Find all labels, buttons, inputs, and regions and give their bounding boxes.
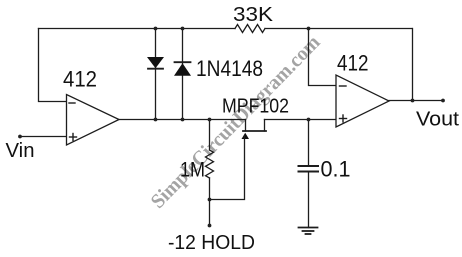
svg-text:-12 HOLD: -12 HOLD — [168, 231, 255, 254]
wire top feedback rail right of 33K — [265, 28, 412, 30]
svg-text:33K: 33K — [233, 3, 273, 26]
wire JFET source to U2 non-inverting input — [265, 119, 337, 121]
node -12 HOLD terminal — [208, 224, 212, 228]
resistor R1 33K — [235, 25, 265, 33]
svg-text:Vin: Vin — [6, 140, 35, 162]
node D2 top junction — [181, 27, 185, 31]
op-amp U2 412 — [336, 75, 389, 127]
node output junction — [411, 99, 415, 103]
op-amp U1 412 — [67, 95, 120, 146]
node R2 bottom junction — [208, 198, 212, 202]
node R2 junction on U1 output wire — [208, 118, 212, 122]
wire U1 output to JFET drain — [119, 119, 246, 121]
node D1 bottom junction — [154, 118, 158, 122]
svg-text:MPF102: MPF102 — [222, 94, 289, 117]
resistor R2 1M — [206, 120, 214, 200]
svg-text:Vout: Vout — [416, 109, 459, 131]
transistor Q1 MPF102 JFET — [242, 120, 267, 140]
svg-text:412: 412 — [337, 50, 369, 75]
capacitor C1 0.1 — [299, 120, 319, 228]
wire left feedback drop to U1 inverting input — [39, 29, 67, 102]
watermark SimpleCircuitDiagram.com — [147, 31, 325, 212]
wire -12 HOLD feed — [209, 200, 211, 226]
wire top feedback rail left of 33K — [39, 28, 236, 30]
svg-text:1N4148: 1N4148 — [196, 56, 263, 81]
wire U2 output to Vout — [389, 100, 443, 102]
node C1 junction on signal wire — [307, 118, 311, 122]
svg-text:0.1: 0.1 — [321, 157, 351, 182]
diode D2 1N4148 (cathode up) — [174, 29, 191, 120]
node Vin terminal — [18, 135, 22, 139]
svg-text:1M: 1M — [180, 157, 205, 181]
wire feedback drop to U2 inverting input — [309, 29, 337, 86]
node Vout terminal — [441, 99, 445, 103]
wire JFET gate down and left to R2 node — [210, 136, 245, 200]
wire top rail drop to output node — [412, 29, 414, 101]
node D1 top junction — [154, 27, 158, 31]
wire Vin to U1 non-inverting input — [20, 136, 67, 138]
node feedback junction on top rail — [307, 27, 311, 31]
diode D1 1N4148 (cathode down) — [147, 29, 164, 120]
svg-text:412: 412 — [63, 66, 97, 91]
ground — [299, 228, 318, 235]
node D2 bottom junction — [181, 118, 185, 122]
